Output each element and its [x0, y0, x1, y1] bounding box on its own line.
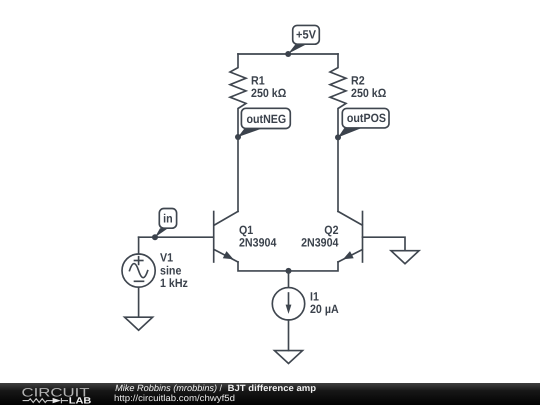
- net flag outNEG: [238, 108, 290, 137]
- svg-text:1 kHz: 1 kHz: [160, 276, 188, 290]
- node in junction dot: [152, 234, 158, 240]
- svg-text:outPOS: outPOS: [347, 111, 386, 125]
- svg-text:250 kΩ: 250 kΩ: [251, 86, 287, 100]
- svg-text:outNEG: outNEG: [247, 112, 287, 126]
- node +5V junction dot: [285, 51, 291, 57]
- svg-text:250 kΩ: 250 kΩ: [351, 86, 387, 100]
- svg-text:+5V: +5V: [296, 27, 316, 41]
- current source I1: [272, 271, 339, 351]
- wire R1 to Q1 collector: [237, 137, 239, 211]
- svg-text:BJT difference amp: BJT difference amp: [228, 383, 317, 393]
- svg-text:2N3904: 2N3904: [239, 236, 277, 250]
- net flag outPOS: [338, 108, 389, 137]
- svg-text:in: in: [163, 211, 173, 225]
- wire Q1 emitter to tail node: [238, 262, 289, 271]
- node outNEG junction dot: [235, 134, 241, 140]
- svg-text:LAB: LAB: [69, 396, 92, 405]
- wire base V1 to Q1: [139, 236, 214, 238]
- transistor Q1: [214, 211, 277, 262]
- ground at I1: [275, 351, 303, 364]
- resistor R2: [330, 54, 387, 137]
- voltage source V1: [122, 237, 188, 317]
- net flag in: [155, 209, 177, 238]
- wire top rail: [238, 53, 338, 55]
- transistor Q2: [301, 211, 362, 262]
- footer bar: [0, 383, 540, 405]
- ground at V1: [125, 317, 153, 330]
- wire Q2 emitter to tail node: [289, 262, 339, 271]
- svg-text:http://circuitlab.com/chwyf5d: http://circuitlab.com/chwyf5d: [114, 393, 235, 403]
- wire R2 to Q2 collector: [337, 137, 339, 211]
- node tail junction dot: [286, 268, 292, 274]
- net flag +5V: [288, 25, 319, 53]
- svg-text:Mike Robbins (mrobbins): Mike Robbins (mrobbins): [115, 383, 217, 393]
- CircuitLab logo resistor-diode glyph: [23, 398, 68, 403]
- wire Q2 base to ground: [363, 237, 406, 251]
- node outPOS junction dot: [335, 134, 341, 140]
- svg-text:20 µA: 20 µA: [310, 302, 339, 316]
- resistor R1: [230, 54, 287, 137]
- svg-text:2N3904: 2N3904: [301, 236, 339, 250]
- ground at Q2 base: [391, 251, 419, 264]
